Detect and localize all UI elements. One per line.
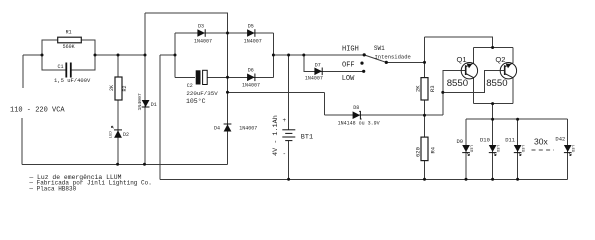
svg-text:D7: D7 [315, 62, 321, 68]
diode D5 [244, 23, 262, 44]
wire D7 branch [304, 55, 364, 71]
svg-text:1,5 uF/400V: 1,5 uF/400V [54, 77, 91, 84]
svg-text:SW1: SW1 [374, 45, 385, 52]
wire top rail [145, 12, 228, 14]
node LED rail D11 [516, 118, 519, 121]
svg-text:D11: D11 [505, 137, 516, 144]
wire bridge row2 right [228, 76, 274, 78]
node D7 branch [302, 54, 305, 57]
wire LED column D11 [517, 119, 519, 179]
svg-text:D2: D2 [123, 132, 129, 138]
notes text block [28, 174, 151, 193]
svg-text:— Placa HB830: — Placa HB830 [28, 186, 76, 193]
svg-text:R2: R2 [122, 85, 128, 91]
svg-text:1N4007: 1N4007 [305, 76, 323, 82]
diode D1 [137, 93, 157, 110]
wire LED column D9 [465, 119, 467, 179]
diode D4 [214, 124, 257, 132]
svg-text:1N4007: 1N4007 [242, 82, 260, 88]
svg-text:D1: D1 [151, 102, 157, 108]
wire input terminal 1 [22, 55, 24, 88]
zener D8 [338, 105, 380, 127]
svg-text:BT1: BT1 [301, 134, 313, 142]
svg-text:HIGH: HIGH [342, 45, 359, 53]
node collector rail [491, 102, 494, 105]
wire bridge right vertical [272, 33, 274, 77]
LED D10 [480, 137, 499, 156]
svg-text:Q1: Q1 [457, 55, 467, 64]
svg-text:D8: D8 [353, 105, 359, 111]
svg-text:2K: 2K [414, 85, 421, 92]
svg-text:-: - [283, 150, 287, 157]
wire bridge AC tap [160, 54, 175, 56]
wire bottom rail B [160, 178, 568, 180]
node D1 bottom [143, 163, 146, 166]
svg-text:30x: 30x [534, 137, 548, 147]
svg-text:LED: LED [570, 145, 574, 153]
svg-text:1N4007: 1N4007 [137, 93, 143, 110]
wire Q2 base lead [443, 71, 504, 93]
wire collector drop to LED rail [492, 104, 494, 120]
wire bottom rail A [22, 163, 228, 165]
svg-text:110 - 220 VCA: 110 - 220 VCA [10, 107, 65, 115]
LED D42 [555, 135, 574, 155]
wire D8 row [325, 114, 443, 116]
node AC right [94, 54, 97, 57]
wire zener feed line [228, 91, 325, 93]
wire R4 bottom lead [424, 161, 426, 180]
diode D7 [305, 62, 323, 81]
svg-text:1N4007: 1N4007 [239, 126, 257, 132]
wire bridge row2 left [175, 76, 195, 78]
wire bridge center vertical [227, 13, 229, 164]
svg-text:R3: R3 [429, 85, 436, 92]
node R3 bottom [423, 114, 426, 117]
wire emitter feed top [425, 37, 493, 48]
LED D9 [457, 138, 473, 156]
svg-text:C1: C1 [58, 64, 64, 70]
node LED rail D10 [491, 118, 494, 121]
wire LED column D42 [567, 119, 569, 179]
LED D2 [110, 126, 129, 138]
wire Q1 emitter lead [473, 48, 475, 64]
battery BT1 [272, 115, 313, 157]
wire C1 left lead [42, 55, 66, 70]
wire switch lever [364, 55, 386, 63]
wire bridge row1 [175, 32, 228, 34]
svg-text:R1: R1 [66, 30, 72, 36]
node bridge AC in [174, 54, 177, 57]
svg-text:D4: D4 [214, 126, 220, 132]
svg-text:1N4007: 1N4007 [244, 38, 262, 44]
wire R2 top lead [117, 55, 119, 77]
node emitter rail [491, 46, 494, 49]
node base junction [441, 91, 444, 94]
wire LED top rail [466, 118, 568, 120]
svg-text:2K: 2K [109, 85, 115, 91]
diode D3 [194, 23, 212, 44]
wire bridge left vertical [174, 33, 176, 77]
diode D6 [242, 68, 260, 89]
wire left branch vertical (D1 branch) [144, 13, 146, 164]
wire C1 right lead [71, 55, 95, 70]
svg-text:LED: LED [495, 145, 499, 153]
resistor R2 [109, 77, 128, 100]
wire switch pivot to R3 node [386, 61, 424, 63]
svg-text:620: 620 [414, 147, 421, 157]
transistor Q1 [447, 55, 478, 89]
node battery bottom [287, 178, 290, 181]
wire Q1 base lead [443, 71, 465, 93]
wire R3 bottom lead [424, 100, 426, 137]
node bridge center mid [226, 76, 229, 79]
svg-text:8550: 8550 [486, 78, 507, 89]
wire bridge row1 right [228, 32, 274, 34]
svg-text:105°C: 105°C [186, 97, 206, 105]
node R4 bottom [423, 178, 426, 181]
wire R2 bottom to D2 [117, 100, 119, 164]
wire AC input stub to node A [23, 54, 42, 56]
node D9 bottom [465, 178, 468, 181]
node R2 top [117, 54, 120, 57]
svg-text:8550: 8550 [447, 78, 468, 89]
svg-text:LOW: LOW [342, 75, 355, 83]
30x dashed continuation [532, 137, 555, 151]
wire Q1 collector lead [473, 78, 475, 104]
svg-text:D3: D3 [198, 23, 204, 29]
resistor R1 [58, 30, 82, 50]
node D1 branch [144, 54, 147, 57]
wire Q2 emitter lead [512, 48, 514, 64]
switch SW1 [342, 45, 411, 83]
capacitor C2 [186, 70, 218, 105]
wire battery negative lead [288, 141, 290, 180]
wire LED column D10 [492, 119, 494, 179]
svg-text:R4: R4 [429, 146, 436, 153]
wire battery branch [288, 55, 290, 130]
transistor Q2 [486, 55, 516, 89]
wire DC positive line [273, 54, 364, 56]
wire node A to node B [95, 54, 145, 56]
svg-text:LED: LED [468, 145, 472, 153]
svg-text:560K: 560K [63, 44, 75, 50]
wire emitter rail [474, 47, 513, 49]
svg-text:Q2: Q2 [495, 55, 505, 64]
wire base junction riser [442, 92, 444, 115]
svg-text:LED: LED [110, 131, 114, 139]
LED D11 [505, 137, 524, 156]
wire R1 branch [42, 40, 58, 55]
wire zener feed drop [324, 92, 326, 115]
wire input terminal 2 [21, 118, 23, 164]
svg-text:LED: LED [520, 145, 524, 153]
svg-text:220uF/35V: 220uF/35V [186, 90, 218, 97]
wire bridge row2 mid [208, 76, 228, 78]
resistor R4 [414, 137, 436, 161]
node D10 bottom [491, 178, 494, 181]
wire Q2 collector lead [512, 78, 514, 104]
node zener feed [226, 91, 229, 94]
svg-text:D6: D6 [248, 68, 254, 74]
node D11 bottom [516, 178, 519, 181]
svg-text:4V - 1.1Ah: 4V - 1.1Ah [272, 115, 280, 156]
svg-text:D5: D5 [248, 23, 254, 29]
wire R1 right lead [81, 40, 95, 55]
svg-text:1N4007: 1N4007 [194, 38, 212, 44]
svg-text:1N4148 ou 3.9V: 1N4148 ou 3.9V [338, 120, 380, 126]
capacitor C1 [54, 63, 91, 85]
node bridge center top [226, 32, 229, 35]
wire collector rail [474, 103, 513, 105]
svg-text:C2: C2 [187, 83, 193, 89]
node battery plus [287, 54, 290, 57]
node bridge out [272, 54, 275, 57]
resistor R3 [414, 78, 436, 100]
node AC left [41, 54, 44, 57]
wire x160 vertical to bottom rail B [159, 55, 161, 179]
svg-text:+: + [283, 117, 287, 124]
node R3 top [423, 61, 426, 64]
svg-text:Intensidade: Intensidade [375, 54, 411, 61]
svg-text:OFF: OFF [342, 62, 355, 70]
svg-text:D9: D9 [457, 138, 464, 145]
wire R3 node vertical up [424, 37, 426, 78]
svg-text:D42: D42 [555, 135, 565, 142]
svg-text:D10: D10 [480, 137, 490, 144]
node D2 bottom [116, 163, 119, 166]
